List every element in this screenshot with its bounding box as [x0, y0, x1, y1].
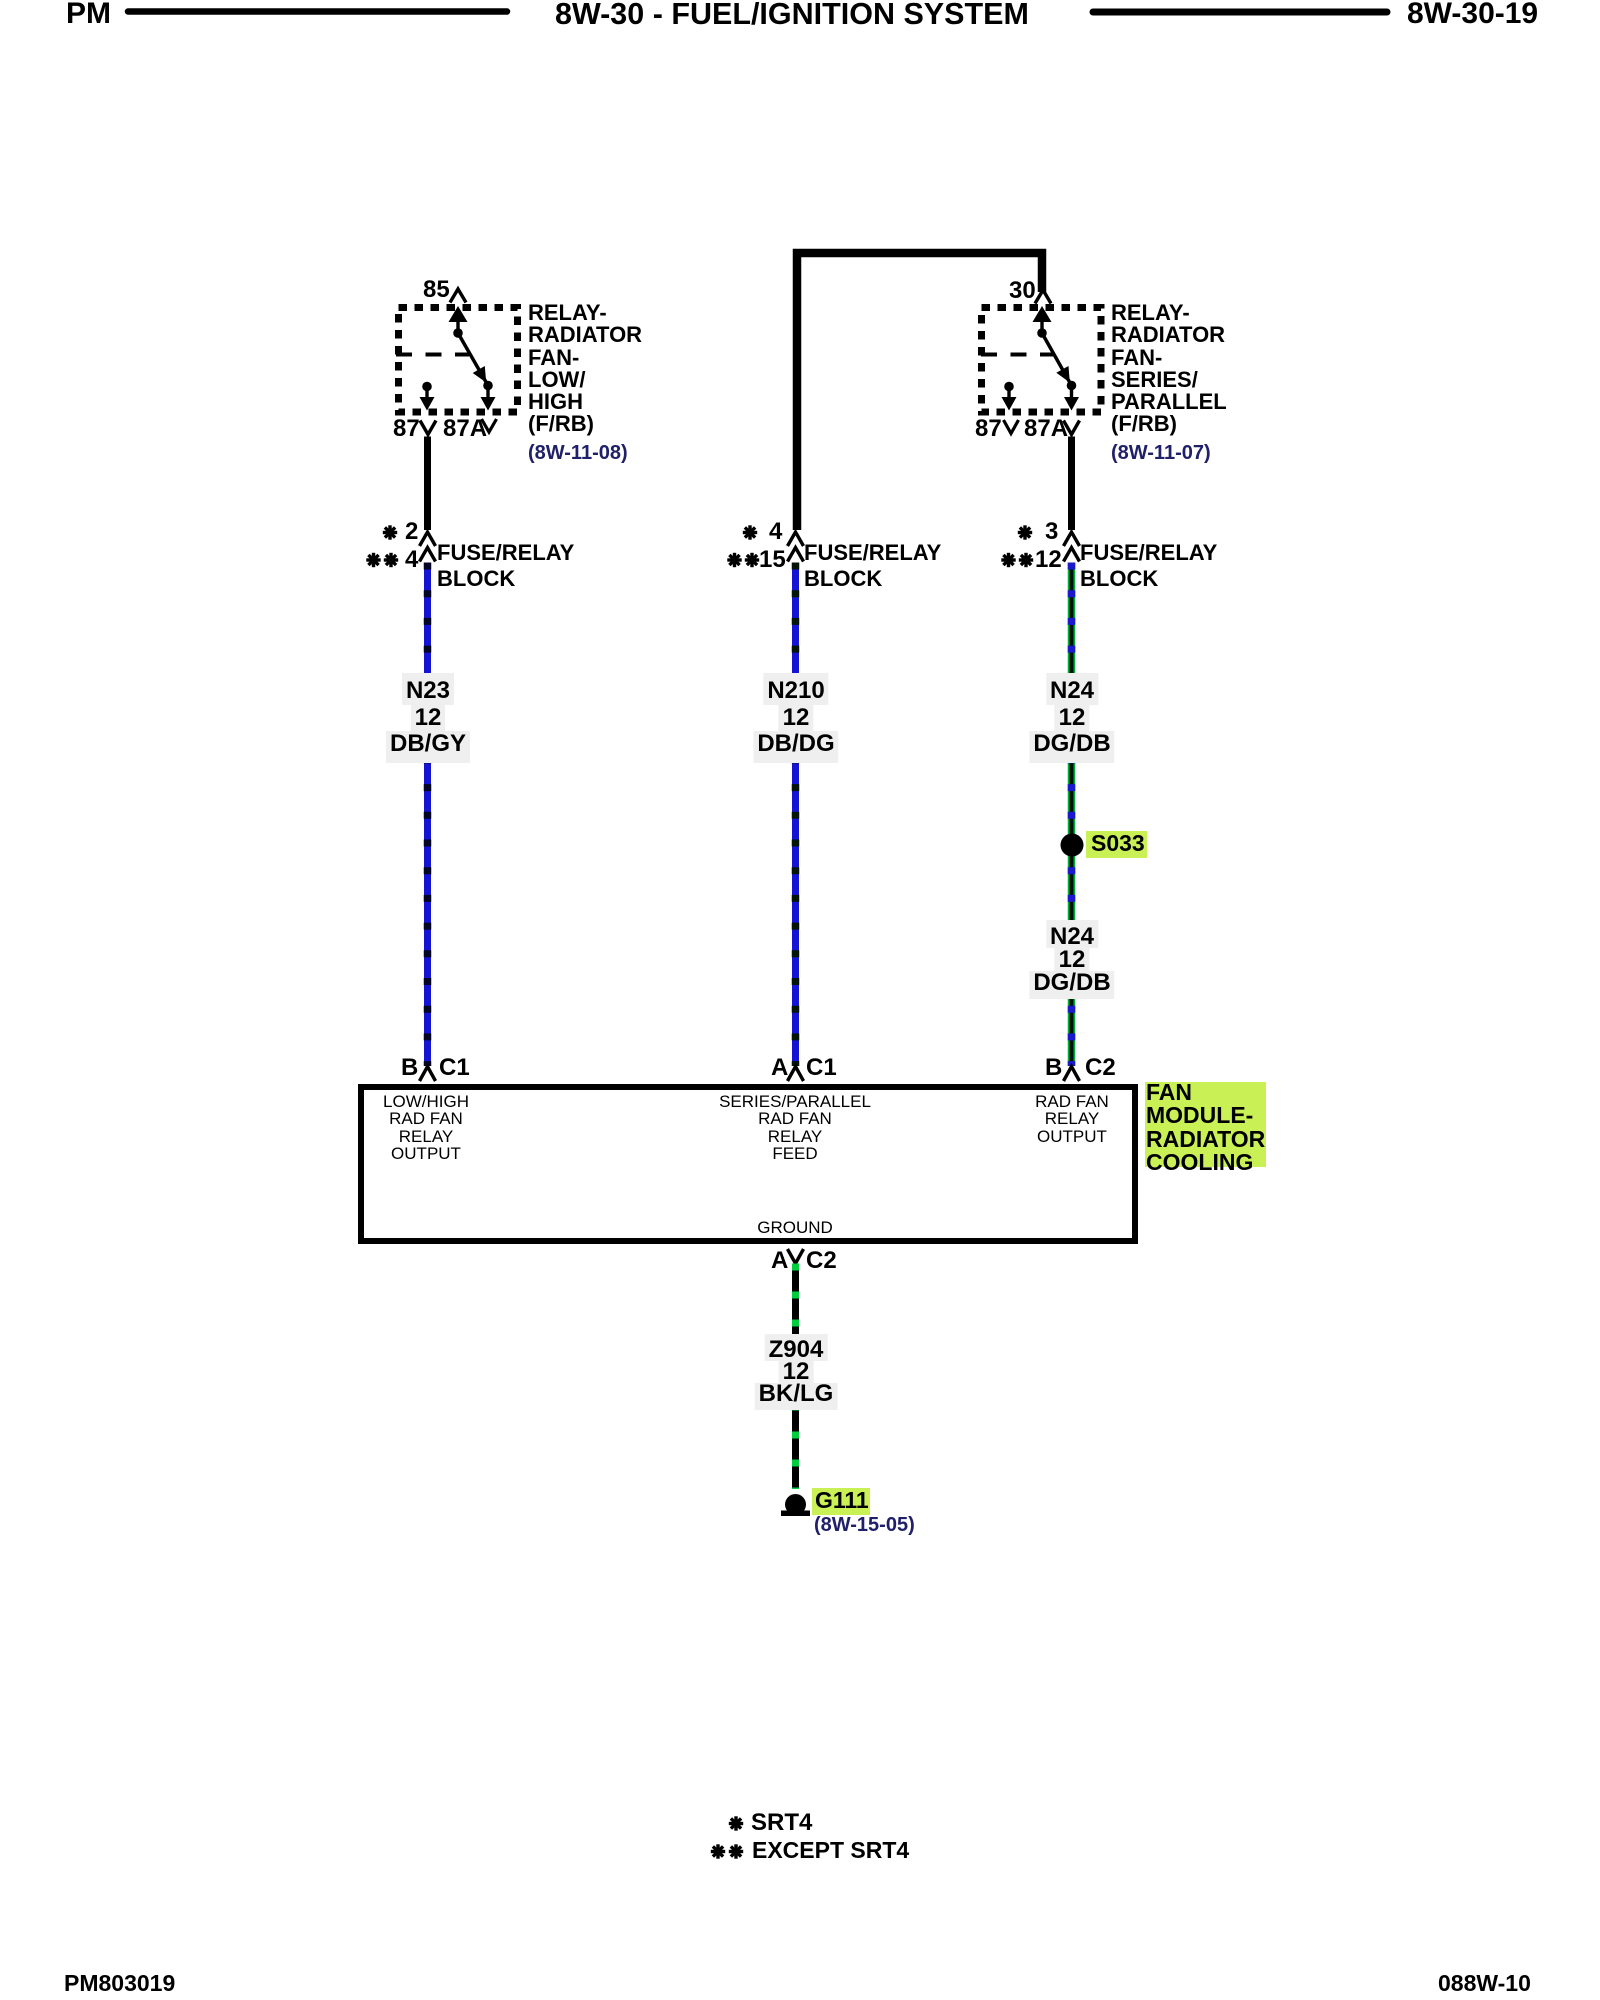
fan module-radiator cooling box [361, 1087, 1135, 1241]
asterisk: right connector line2 b [1019, 553, 1033, 567]
splice S033 label [1091, 832, 1145, 855]
asterisk: middle connector line1 [743, 525, 757, 539]
asterisk: left connector line2 b [384, 553, 398, 567]
fuse/relay block right cavity 3 label [1045, 520, 1058, 544]
relay K1 common node dot [453, 328, 463, 338]
ground G111 page reference [814, 1515, 915, 1535]
fan module text: series/parallel rad fan relay feed [719, 1093, 871, 1163]
fan module ground pin C2 label [806, 1249, 837, 1273]
relay K1 pin 87 dot and arrow down [422, 382, 432, 392]
footer sheet code [64, 1972, 175, 1995]
header page number [1407, 0, 1538, 29]
relay K1 (radiator fan low/high) dashed body [399, 308, 518, 413]
header rule right [1093, 9, 1387, 16]
relay K2 pin 87A node dot [1067, 381, 1077, 391]
wire label N24 12 DG/DB (lower) [1029, 925, 1114, 994]
relay K2 common node dot [1037, 328, 1047, 338]
relay K2 pin 87A label [1024, 417, 1068, 441]
splice S033 dot [1061, 834, 1084, 857]
relay K2 pin 87A arrow down [1070, 386, 1073, 400]
fan module C1 pin A label [771, 1056, 788, 1080]
relay K2 pin 87 connector chevron [1004, 420, 1019, 434]
footnote SRT4 [751, 1811, 812, 1835]
asterisk: footnote SRT4 [729, 1816, 743, 1830]
asterisk: middle connector line2 a [727, 553, 741, 567]
fan module C1 pin B label [401, 1056, 418, 1080]
fuse/relay block middle cavity 15 label [759, 548, 786, 572]
fuse/relay block middle connector chevrons [788, 532, 804, 546]
fan module C1 pin label [439, 1056, 470, 1080]
fan module text: rad fan relay output [1035, 1093, 1109, 1145]
wire N210 12 DB/DG (blue) middle column [792, 563, 799, 1067]
relay K1 pin 87 connector chevron [420, 421, 436, 435]
fan module name highlight [1145, 1082, 1266, 1167]
relay K2 coil divider dashed line [981, 353, 1053, 357]
asterisk: right connector line1 [1018, 525, 1032, 539]
relay K1 coil divider dashed line [396, 353, 469, 357]
relay K1 page reference [528, 443, 628, 463]
fan module C1/C2 pin chevrons above box [420, 1067, 436, 1082]
asterisk: middle connector line2 b [745, 553, 759, 567]
relay K1 pin 85 label [423, 278, 450, 302]
asterisk: footnote EXCEPT SRT4 a [711, 1844, 725, 1858]
relay K2 pin 87 dot and arrow down [1004, 382, 1014, 392]
relay K2 (radiator fan series/parallel) dashed body [982, 308, 1102, 413]
footer drawing number [1438, 1972, 1531, 1995]
relay K1 pin 87A label [443, 417, 487, 441]
fuse/relay block left cavity 2 label [405, 520, 418, 544]
wire N23 12 DB/GY (blue) left column [424, 563, 431, 1067]
fan module ground pin A label [771, 1249, 788, 1273]
wire bus from fuse/relay block cavity 4 up and over to relay K2 pin 30 [797, 253, 1042, 530]
asterisk: left connector line1 [383, 525, 397, 539]
wire N24 12 DG/DB (dark green) right column [1068, 563, 1076, 1067]
relay K2 pin 87 label [975, 417, 1002, 441]
relay K2 pin 30 terminal chevron [1035, 290, 1051, 304]
relay K2 pin 30 label [1009, 279, 1036, 303]
relay K2 coil arrow up [1040, 319, 1043, 333]
fuse/relay block name (left) [437, 540, 574, 592]
relay K2 switch blade with arrowhead [1042, 333, 1072, 386]
fuse/relay block name (right) [1080, 540, 1217, 592]
ground G111 highlight [812, 1488, 870, 1515]
fan module ground pin chevron below box [788, 1249, 804, 1264]
asterisk: left connector line2 a [366, 553, 380, 567]
ground G111 symbol [785, 1494, 806, 1515]
fan module C2 pin label [1085, 1056, 1116, 1080]
footnote EXCEPT SRT4 [752, 1839, 909, 1862]
wire from relay K2 pin 87A down to fuse/relay block [1068, 437, 1075, 531]
relay K1 name label [528, 302, 642, 436]
asterisk footnote marks (8-point stars) [366, 525, 1033, 1858]
fuse/relay block left connector chevrons [420, 532, 436, 546]
relay K1 pin 87A connector chevron [482, 419, 497, 432]
fan module C1 middle pin label [806, 1056, 837, 1080]
relay K1 switch blade with arrowhead [458, 333, 488, 386]
fan module C2 pin B label [1045, 1056, 1062, 1080]
wire label N210 12 DB/DG [753, 678, 838, 758]
header rule left [128, 8, 507, 15]
fuse/relay block name (middle) [804, 540, 941, 592]
relay K1 coil arrow up [456, 319, 459, 333]
relay K2 page reference [1111, 443, 1211, 463]
wire label N24 12 DG/DB (upper) [1029, 678, 1114, 758]
fan module text: low/high rad fan relay output [383, 1093, 469, 1163]
fuse/relay block right cavity 12 label [1035, 548, 1062, 572]
relay K2 name label [1111, 302, 1227, 436]
asterisk: footnote EXCEPT SRT4 b [729, 1844, 743, 1858]
relay K1 pin 87A node dot [483, 381, 493, 391]
relay K1 pin 87A arrow down [486, 386, 489, 400]
asterisk: right connector line2 a [1001, 553, 1015, 567]
fuse/relay block middle cavity 4 label [769, 520, 782, 544]
wire from relay K1 pin 87 down to fuse/relay block [424, 437, 431, 531]
relay K2 pin 87A connector chevron [1064, 421, 1080, 435]
fan module text: ground [757, 1219, 833, 1236]
fuse/relay block left cavity 4 label [405, 548, 418, 572]
fan module name label [1146, 1081, 1265, 1174]
wire Z904 12 BK/LG (black w/ light green tracer) [792, 1264, 799, 1490]
relay K1 pin 85 terminal chevron [450, 289, 466, 303]
splice S033 highlight [1086, 831, 1147, 858]
wire label Z904 12 BK/LG [754, 1339, 837, 1405]
fuse/relay block right connector chevrons [1064, 532, 1080, 546]
header label PM [66, 0, 111, 29]
header title [555, 0, 1029, 29]
wire label N23 12 DB/GY [385, 678, 469, 758]
ground G111 label [815, 1489, 869, 1512]
relay K1 pin 87 label [393, 417, 420, 441]
